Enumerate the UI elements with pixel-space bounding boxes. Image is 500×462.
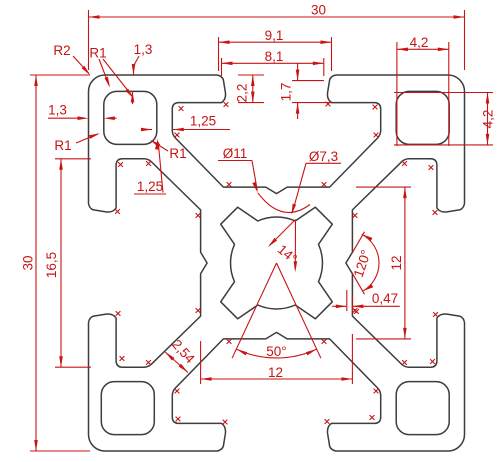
tangent x marks — [115, 102, 438, 425]
dimension 30 top — [89, 3, 465, 71]
corner hole bottom-right — [396, 382, 449, 435]
corner hole top-left — [104, 91, 157, 144]
svg-text:2,2: 2,2 — [235, 84, 250, 103]
svg-text:R1: R1 — [89, 46, 106, 61]
profile outline 30x30 extrusion — [89, 75, 465, 451]
corner hole top-right — [396, 91, 449, 144]
dimension 16,5 chamber width — [44, 159, 91, 367]
svg-text:50°: 50° — [266, 344, 286, 359]
center bore with screw flanks — [221, 207, 333, 319]
svg-text:1,3: 1,3 — [134, 42, 153, 57]
dimension 2,54 web thickness — [165, 337, 198, 373]
svg-text:R2: R2 — [53, 43, 70, 58]
svg-text:Ø7,3: Ø7,3 — [309, 149, 338, 164]
svg-text:8,1: 8,1 — [265, 49, 284, 64]
svg-text:0,47: 0,47 — [372, 291, 398, 306]
dimension 1,25 lip — [141, 114, 230, 132]
svg-text:R1: R1 — [54, 138, 71, 153]
dimension 1,3 left wall — [48, 103, 117, 121]
radius leader R1 hole lower-left — [54, 133, 100, 153]
dimension 14 degrees flank angle — [268, 220, 300, 273]
svg-text:1,3: 1,3 — [48, 103, 67, 118]
dimension 120 degrees notch angle — [351, 232, 379, 295]
svg-text:30: 30 — [311, 3, 326, 18]
corner hole bottom-left — [101, 382, 154, 435]
dimension 4,2 right hole height — [394, 93, 496, 145]
dimension 12 right core height — [356, 187, 411, 339]
dimension 50 degrees — [232, 263, 321, 359]
svg-text:Ø11: Ø11 — [223, 146, 248, 161]
radius leader R1 hole corners — [89, 46, 133, 99]
dimension 1,7 lip step — [279, 63, 332, 119]
svg-text:1,25: 1,25 — [190, 114, 216, 129]
svg-text:12: 12 — [389, 255, 404, 270]
dimension 0,47 notch depth — [332, 290, 400, 311]
dimension 2,2 lip depth — [235, 75, 265, 103]
svg-text:9,1: 9,1 — [265, 28, 284, 43]
dimension 30 left — [21, 75, 91, 451]
svg-text:12: 12 — [268, 365, 283, 380]
svg-text:30: 30 — [21, 255, 36, 270]
dimension 4,2 top hole width — [397, 35, 449, 146]
dimension 1,25 block wall — [134, 139, 166, 195]
diameter leader O7,3 — [292, 149, 342, 215]
dimension 8,1 slot width — [222, 49, 324, 76]
dimension 1,3 top wall — [131, 42, 153, 104]
svg-text:4,2: 4,2 — [481, 110, 496, 129]
radius leader R1 hole lower-right — [150, 140, 187, 161]
dimension 12 bottom core width — [201, 334, 353, 384]
svg-text:16,5: 16,5 — [44, 252, 59, 278]
dimension 9,1 slot opening — [219, 28, 332, 71]
svg-text:1,7: 1,7 — [279, 83, 294, 102]
svg-text:4,2: 4,2 — [410, 35, 429, 50]
radius leader R2 outer corner — [53, 43, 90, 75]
svg-text:R1: R1 — [169, 146, 186, 161]
svg-text:1,25: 1,25 — [137, 179, 163, 194]
diameter leader O11 — [218, 146, 310, 212]
